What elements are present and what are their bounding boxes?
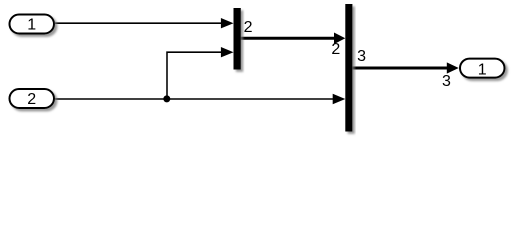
svg-text:3: 3 — [357, 48, 366, 65]
svg-text:2: 2 — [244, 19, 253, 36]
svg-text:2: 2 — [27, 91, 36, 108]
wire: Mux M1 output to Mux M2 input 1 (vector, width 2) — [241, 33, 346, 45]
mux M2 (bar) — [345, 4, 352, 132]
wire: Inport 1 to Mux M1 input 1 — [55, 18, 234, 28]
svg-text:1: 1 — [27, 17, 36, 34]
inport block 1 — [10, 15, 55, 34]
wire: Mux M2 output to Outport 1 (vector, width 3) — [353, 62, 459, 73]
svg-text:3: 3 — [442, 73, 451, 90]
svg-text:1: 1 — [478, 61, 487, 78]
node: branch junction dot — [163, 95, 170, 102]
outport block 1 — [460, 59, 505, 78]
mux M1 (bar) — [234, 8, 241, 70]
svg-text:2: 2 — [331, 41, 340, 58]
inport block 2 — [10, 89, 55, 108]
wire: Inport 2 to Mux M2 input 2 — [55, 94, 346, 104]
wire: branch from junction up to Mux M1 input 2 — [167, 47, 234, 99]
